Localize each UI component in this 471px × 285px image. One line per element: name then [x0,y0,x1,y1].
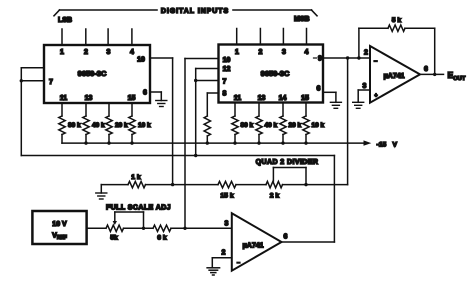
junction bias rail / U2 pins 12-7 [194,154,197,157]
U1 digital input stub pin 4 [131,29,133,45]
svg-text:10 k: 10 k [312,122,325,129]
pot wiper arrow [113,212,117,225]
svg-text:V: V [393,142,398,149]
wire: resistor bottom to -15V rail [258,135,260,144]
U1 pin 5 stub wire [21,67,44,69]
svg-text:6: 6 [284,234,288,241]
svg-text:2: 2 [259,49,263,56]
wire: resistor bottom to -15V rail [305,135,307,144]
op-amp U4 uA741 (bottom) [232,213,282,271]
svg-text:15: 15 [301,95,309,102]
U1 digital input stub pin 3 [107,29,109,45]
svg-text:9650-3C: 9650-3C [78,69,107,78]
ground (U3 pin 3) [353,101,364,103]
svg-text:4: 4 [130,49,134,56]
svg-text:13: 13 [85,95,93,102]
junction on -15V rail [233,141,236,144]
resistor 80 k (left ladder) [59,116,65,135]
wire: resistor bottom to -15V rail [61,135,63,144]
wire: wiper link [115,212,144,228]
junction U2 pin12/pin7 [194,79,197,82]
wire: U2 pin 6 to ground [323,91,336,93]
resistor 40 k (left ladder) [83,116,89,135]
wire: 1k to 15k [146,184,219,186]
junction on -15V rail [257,141,260,144]
svg-text:-15: -15 [377,142,387,149]
resistor 20 k (left ladder) [106,116,112,135]
wire: ground to 1k [101,184,128,186]
op-amp U3 uA741 (top) [370,46,420,103]
svg-text:FULL SCALE ADJ: FULL SCALE ADJ [106,205,171,212]
junction at U1 pin 7 [20,79,23,82]
resistor 20 k (right ladder) [280,116,286,135]
wire: U3 output to EOUT [420,73,444,75]
junction U1 pin10 / 1k row [171,183,174,186]
resistor 5k feedback [359,27,388,29]
wire: U1 bottom pin to ladder resistor 2 [85,103,87,116]
svg-text:80 k: 80 k [68,122,81,129]
resistor 6 k [153,225,171,231]
resistor 15 k [218,181,236,187]
junction on -15V rail [107,141,110,144]
svg-text:5k: 5k [110,235,118,242]
svg-text:20 k: 20 k [115,122,128,129]
svg-text:1: 1 [235,49,239,56]
svg-text:μA741: μA741 [383,73,404,80]
svg-text:12: 12 [223,66,231,73]
junction pin9/V2 [346,56,349,59]
resistor 10 k (right ladder) [303,116,309,135]
junction on -15V rail [304,141,307,144]
junction U2 pin10 / U4 pin3 row [183,227,186,230]
DAC U2 9650-3C (right) [219,45,324,103]
U2 digital input stub pin 2 [259,29,261,45]
svg-text:2: 2 [364,50,368,57]
svg-text:6 k: 6 k [157,235,167,242]
wire: U2 pin 9 to U3 inverting input [323,57,370,59]
wire V2: pin 9 down to divider node [347,58,349,185]
svg-text:−: − [374,59,378,65]
svg-text:3: 3 [225,221,229,228]
svg-text:10 k: 10 k [138,122,151,129]
svg-text:3: 3 [363,83,367,90]
wire: U1 left vertical down to bias rail [20,68,22,156]
U1 pin 7 wire [21,80,44,82]
svg-text:2 k: 2 k [270,193,280,200]
wire: resistor bottom to -15V rail [85,135,87,144]
resistor (U2 pin 8 bias) [204,116,210,136]
resistor 10 k (left ladder) [129,116,135,135]
svg-text:7: 7 [49,79,53,86]
svg-text:μA741: μA741 [242,243,263,250]
wire: resistor bottom to -15V rail [131,135,133,144]
potentiometer 5k [106,225,124,231]
wire: 2k to V2 [283,184,348,186]
ground (1k) [96,192,107,194]
wire: feedback left leg [358,28,360,58]
wire: 15k to 2k [236,184,266,186]
svg-text:15 k: 15 k [220,193,233,200]
wire: U1 bottom pin to ladder resistor 4 [131,103,133,116]
svg-text:11: 11 [60,95,68,102]
wire: U4 output row [282,241,335,243]
wire: feedback right leg [434,28,436,74]
svg-text:10 V: 10 V [52,221,67,228]
wire: U1 bottom pin to ladder resistor 3 [108,103,110,116]
digital inputs brace line [54,10,317,16]
svg-text:1: 1 [60,49,64,56]
svg-text:LSB: LSB [58,17,72,24]
U2 digital input stub pin 4 [306,29,308,45]
wire: resistor bottom to -15V rail [234,135,236,144]
svg-text:6: 6 [143,90,147,97]
wire: U2 pin 7 [196,80,219,82]
svg-text:3: 3 [282,49,286,56]
wire: U1 bottom pin to ladder resistor 1 [61,103,63,116]
resistor 2 k [266,181,283,187]
wire: U2 pin 8 to bias resistor [207,92,218,94]
resistor 1 k [128,181,146,187]
resistor 80 k (right ladder) [232,116,238,135]
wire: U1 pin 10 to summing node [150,57,173,59]
wire: U2 bottom pin to ladder resistor 2 [258,103,260,117]
wire: U2 pin 10 down to U4 pin3 node [185,58,219,60]
ground (U4 pin 2) [207,267,220,269]
svg-text:80 k: 80 k [241,122,254,129]
svg-text:QUAD 2 DIVIDER: QUAD 2 DIVIDER [256,159,319,166]
junction on -15V rail [206,141,209,144]
svg-text:6: 6 [424,66,428,73]
quad-2-divider jumper link [273,168,306,185]
U2 digital input stub pin 1 [236,29,238,45]
wire: 6k to U4 pin 3 [171,227,232,229]
U2 digital input stub pin 3 [282,29,284,45]
DAC U1 9650-3C (left) [44,45,150,103]
svg-text:4: 4 [305,49,309,56]
svg-text:DIGITAL INPUTS: DIGITAL INPUTS [161,8,229,15]
svg-text:EOUT: EOUT [448,70,466,82]
junction on -15V rail [84,141,87,144]
wire: bias rail from U1 pin7 to V1 [21,155,334,157]
wire: U2 pin 12 [196,68,219,70]
svg-text:9: 9 [318,56,322,63]
wire: U2 bottom pin to ladder resistor 3 [282,103,284,117]
svg-text:13: 13 [258,95,266,102]
svg-text:40 k: 40 k [265,122,278,129]
junction pin9/feedback [357,56,360,59]
svg-text:8: 8 [223,91,227,98]
wire: resistor bottom to -15V rail [282,135,284,144]
junction feedback/output [433,73,436,76]
ground (U2 pin 6) [330,101,341,103]
svg-text:−: − [237,261,240,267]
svg-text:20 k: 20 k [289,122,302,129]
svg-text:2: 2 [222,250,226,257]
resistor 40 k (right ladder) [256,116,262,135]
junction 2k/jumper [304,183,307,186]
U1 digital input stub pin 1 [61,29,63,45]
wire: U3 pin 3 to ground [358,89,370,91]
svg-text:10: 10 [137,57,145,64]
svg-text:VREF: VREF [52,233,67,242]
svg-text:9650-3C: 9650-3C [261,69,290,78]
junction on -15V rail [281,141,284,144]
svg-text:MSB: MSB [294,16,310,23]
svg-text:10: 10 [223,57,231,64]
wire: pot to 6k [124,227,154,229]
junction on -15V rail [130,141,133,144]
voltage source 10V VREF [32,211,86,244]
svg-text:7: 7 [223,79,227,86]
svg-text:40 k: 40 k [92,122,105,129]
wire: VREF to 5k pot [88,227,106,229]
wire: resistor bottom to -15V rail [108,135,110,144]
svg-text:14: 14 [279,95,287,102]
ground (U1 pin 6) [156,100,167,102]
wire: -15 V rail [62,142,364,144]
wire: U4 pin 2 to ground [212,257,232,259]
svg-text:5 k: 5 k [392,17,402,24]
junction wiper/row [142,227,145,230]
wire: U1 pin 6 to ground [150,91,161,93]
svg-text:3: 3 [107,49,111,56]
wire V1: bias rail down to op-amp U4 output [333,156,335,243]
svg-text:1 k: 1 k [131,174,141,181]
arrowhead -15V [364,140,372,145]
svg-text:+: + [374,93,377,99]
svg-text:2: 2 [84,49,88,56]
U1 digital input stub pin 2 [85,29,87,45]
svg-text:15: 15 [128,95,136,102]
wire: U2 bottom pin to ladder resistor 4 [305,103,307,117]
svg-text:11: 11 [234,95,242,102]
wire: U2 bottom pin to ladder resistor 1 [234,103,236,117]
svg-text:6: 6 [317,86,321,93]
